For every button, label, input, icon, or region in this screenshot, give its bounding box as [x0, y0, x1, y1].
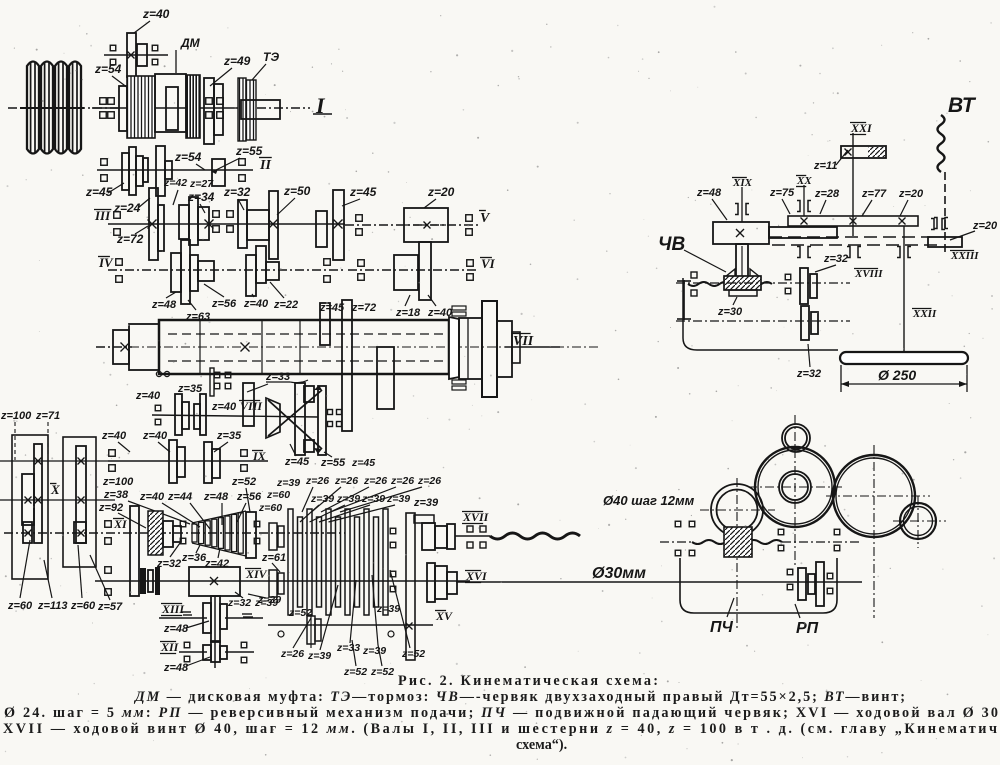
svg-text:z=55: z=55: [320, 457, 346, 469]
svg-text:z=48: z=48: [203, 491, 229, 503]
svg-text:z=52: z=52: [343, 666, 367, 678]
svg-text:z=32: z=32: [796, 368, 821, 380]
svg-text:z=48: z=48: [151, 299, 177, 311]
svg-text:z=11: z=11: [813, 160, 837, 172]
svg-text:z=40: z=40: [142, 430, 168, 442]
svg-text:z=55: z=55: [235, 144, 263, 158]
svg-text:z=32: z=32: [823, 253, 848, 265]
svg-text:Ø 24. шаг = 5 мм: РП — ревер: Ø 24. шаг = 5 мм: РП — реверсивный механ…: [4, 705, 998, 721]
svg-text:X: X: [50, 482, 60, 497]
svg-text:z=40: z=40: [139, 491, 165, 503]
svg-text:z=24: z=24: [113, 201, 141, 215]
svg-text:z=60: z=60: [7, 600, 33, 612]
svg-text:z=42: z=42: [163, 177, 187, 189]
svg-text:z=60: z=60: [266, 489, 290, 501]
svg-text:z=18: z=18: [395, 307, 421, 319]
svg-text:z=42: z=42: [204, 558, 229, 570]
svg-text:z=34: z=34: [187, 190, 215, 204]
svg-text:z=54: z=54: [94, 62, 122, 76]
svg-text:z=39: z=39: [307, 650, 331, 662]
svg-text:III: III: [94, 208, 111, 223]
svg-text:z=36: z=36: [181, 552, 207, 564]
svg-text:z=71: z=71: [35, 410, 60, 422]
svg-text:z=40: z=40: [211, 401, 237, 413]
svg-text:z=48: z=48: [163, 623, 189, 635]
svg-text:z=50: z=50: [283, 184, 311, 198]
svg-text:z=77: z=77: [861, 188, 887, 200]
svg-text:ДМ — дисковая муфта: ТЭ—тормо: ДМ — дисковая муфта: ТЭ—тормоз: ЧВ—-черв…: [133, 689, 905, 705]
svg-text:z=39: z=39: [257, 594, 281, 606]
svg-text:z=26: z=26: [280, 648, 304, 660]
svg-text:z=40: z=40: [135, 390, 161, 402]
svg-text:z=52: z=52: [231, 476, 256, 488]
svg-text:z=45: z=45: [349, 185, 377, 199]
svg-text:z=40: z=40: [142, 7, 170, 21]
svg-text:z=39: z=39: [376, 603, 400, 615]
svg-text:z=20: z=20: [972, 220, 998, 232]
svg-text:z=40: z=40: [101, 430, 127, 442]
svg-text:ВТ: ВТ: [948, 94, 977, 117]
svg-text:z=27: z=27: [189, 178, 214, 190]
svg-text:VI: VI: [481, 256, 496, 271]
svg-text:II: II: [259, 158, 271, 173]
svg-text:z=26: z=26: [305, 475, 329, 487]
svg-text:z=26: z=26: [363, 475, 387, 487]
svg-text:ТЭ: ТЭ: [263, 50, 279, 64]
svg-text:ДМ: ДМ: [180, 36, 201, 50]
svg-text:z=39: z=39: [413, 497, 439, 509]
svg-text:z=57: z=57: [97, 601, 123, 613]
svg-text:Ø 250: Ø 250: [878, 367, 916, 383]
svg-text:z=52: z=52: [401, 648, 425, 660]
svg-text:z=39: z=39: [362, 645, 386, 657]
svg-text:z=20: z=20: [427, 185, 455, 199]
svg-text:z=26: z=26: [417, 475, 441, 487]
svg-text:Рис. 2. Кинематическая схема:: Рис. 2. Кинематическая схема:: [398, 673, 658, 689]
svg-text:z=72: z=72: [351, 302, 376, 314]
svg-text:z=26: z=26: [390, 475, 414, 487]
svg-text:XVIII: XVIII: [854, 268, 883, 280]
svg-text:z=45: z=45: [351, 457, 375, 469]
svg-text:XXIII: XXIII: [950, 250, 979, 262]
svg-text:z=61: z=61: [261, 552, 286, 564]
svg-text:z=28: z=28: [814, 188, 840, 200]
svg-text:z=100: z=100: [102, 476, 134, 488]
svg-text:z=39: z=39: [276, 477, 300, 489]
svg-text:z=52: z=52: [288, 607, 312, 619]
svg-text:IV: IV: [98, 255, 114, 270]
svg-text:z=35: z=35: [216, 430, 242, 442]
svg-text:XVII — ходовой винт Ø 40, ш: XVII — ходовой винт Ø 40, шаг = 12 мм. (…: [3, 721, 997, 737]
svg-text:XXII: XXII: [912, 308, 937, 320]
svg-text:z=48: z=48: [163, 662, 189, 674]
svg-text:z=113: z=113: [37, 600, 67, 612]
svg-text:РП: РП: [796, 620, 819, 637]
svg-text:z=60: z=60: [70, 600, 96, 612]
svg-text:z=45: z=45: [284, 456, 310, 468]
svg-text:z=52: z=52: [370, 666, 394, 678]
svg-text:z=30: z=30: [717, 306, 743, 318]
svg-text:z=72: z=72: [116, 232, 144, 246]
svg-text:z=20: z=20: [898, 188, 924, 200]
svg-text:z=33: z=33: [265, 371, 290, 383]
svg-text:z=26: z=26: [334, 475, 358, 487]
svg-text:V: V: [480, 211, 491, 226]
svg-text:схема“).: схема“).: [516, 737, 567, 753]
svg-text:Ø30мм: Ø30мм: [592, 565, 646, 582]
svg-text:ЧВ: ЧВ: [658, 234, 685, 255]
svg-text:z=49: z=49: [223, 54, 251, 68]
svg-text:z=38: z=38: [103, 489, 129, 501]
svg-text:z=44: z=44: [167, 491, 192, 503]
svg-text:z=32: z=32: [223, 185, 251, 199]
svg-text:z=22: z=22: [273, 299, 298, 311]
svg-text:z=45: z=45: [319, 302, 345, 314]
svg-text:z=100: z=100: [0, 410, 32, 422]
svg-text:z=39: z=39: [336, 493, 360, 505]
svg-text:z=56: z=56: [211, 298, 237, 310]
svg-text:z=75: z=75: [769, 187, 795, 199]
svg-text:z=60: z=60: [258, 502, 282, 514]
svg-text:z=48: z=48: [696, 187, 722, 199]
svg-text:z=33: z=33: [336, 642, 360, 654]
svg-text:z=40: z=40: [243, 298, 269, 310]
svg-text:z=32: z=32: [227, 597, 251, 609]
svg-text:Ø40 шаг 12мм: Ø40 шаг 12мм: [603, 493, 695, 508]
svg-text:z=54: z=54: [174, 150, 202, 164]
svg-text:ПЧ: ПЧ: [710, 619, 734, 636]
svg-text:z=92: z=92: [98, 502, 123, 514]
